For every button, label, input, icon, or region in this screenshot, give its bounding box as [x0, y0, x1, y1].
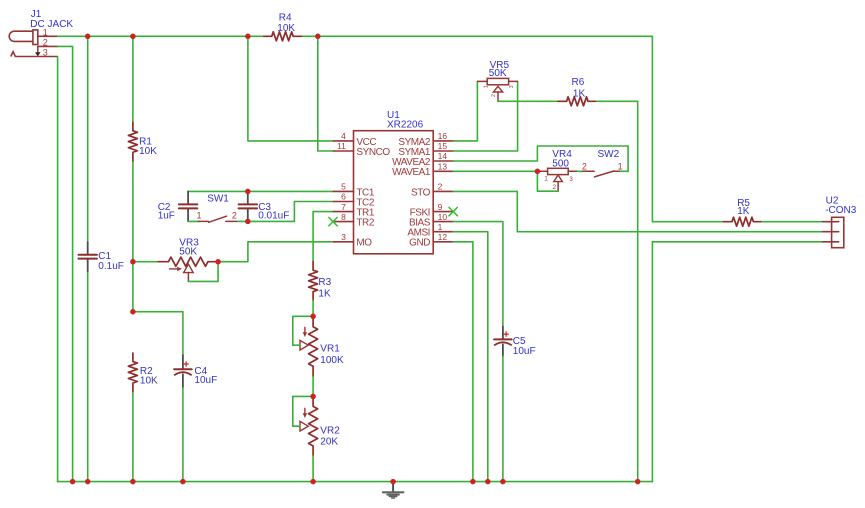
J1 switch arrow head [35, 52, 41, 56]
svg-text:10K: 10K [277, 23, 295, 34]
U1 pin 4 VCC [333, 140, 353, 142]
wire C2 bottom to SW1 [188, 220, 198, 222]
svg-text:2: 2 [43, 38, 48, 48]
svg-text:11: 11 [337, 141, 346, 151]
svg-text:XR2206: XR2206 [387, 120, 424, 131]
svg-text:10K: 10K [140, 375, 158, 386]
resistor R1 [128, 122, 137, 161]
svg-text:50K: 50K [489, 68, 507, 79]
svg-text:10uF: 10uF [513, 346, 536, 357]
wire C2 top lead corner [187, 190, 189, 192]
resistor R5 [723, 217, 762, 226]
svg-text:7: 7 [341, 202, 346, 212]
wire C5 to rail [502, 356, 504, 482]
svg-text:14: 14 [438, 151, 448, 161]
wire VR4 to SW2 [578, 170, 584, 172]
wire R5 to U2 pin1 [762, 221, 823, 223]
U1 pin 10 BIAS [433, 221, 453, 223]
wire R3 to VR1 [312, 300, 314, 316]
svg-text:R4: R4 [279, 12, 292, 23]
wire GND rail rise to U2 pin3 [651, 242, 653, 482]
svg-text:3: 3 [341, 232, 346, 242]
svg-text:TR2: TR2 [356, 218, 374, 229]
svg-text:1K: 1K [573, 89, 586, 100]
wire C4 to rail [182, 387, 184, 482]
svg-text:10: 10 [438, 212, 448, 222]
wire AMSI pin1 down [453, 232, 488, 482]
switch SW1 left contact [198, 220, 208, 222]
U1 pin 11 SYNCO [333, 150, 353, 152]
svg-text:16: 16 [438, 131, 448, 141]
resistor R4 [264, 32, 302, 41]
svg-text:1uF: 1uF [158, 210, 175, 221]
connector J1 DC JACK barrel [9, 31, 32, 41]
resistor R6 [558, 97, 597, 106]
connector U2 -CON3 body [832, 217, 844, 247]
wire J1 pin2 jog [58, 46, 73, 481]
svg-text:100K: 100K [320, 355, 344, 366]
capacitor C3 [247, 191, 249, 203]
junction dots [85, 34, 91, 40]
capacitor C2 [187, 191, 189, 203]
capacitor C5 polarized [502, 327, 504, 339]
U2 pin 3 stub [823, 241, 839, 243]
VR3 adjust arrow [170, 268, 179, 270]
wire SYNCO drop to pin11 [318, 36, 334, 151]
no-connect X on FSKI pin9 [449, 207, 457, 215]
svg-text:4: 4 [341, 131, 346, 141]
wire VR3 wiper loop [188, 262, 218, 282]
switch SW2 left contact [583, 170, 594, 172]
VR3 wiper stem [187, 273, 189, 282]
U2 pin 1 stub [823, 221, 839, 223]
VR4 pin3 lead [568, 170, 577, 172]
svg-text:R3: R3 [318, 277, 331, 288]
svg-text:MO: MO [356, 238, 372, 249]
wire U2 pin3 feed [652, 241, 822, 243]
wire node to C4 branch [133, 312, 183, 356]
svg-text:SW2: SW2 [598, 149, 620, 160]
svg-text:15: 15 [438, 141, 448, 151]
U1 pin 12 GND [433, 241, 453, 243]
ground symbol [392, 482, 394, 492]
resistor R3 [309, 262, 318, 301]
svg-text:1: 1 [618, 162, 623, 172]
switch SW1 right contact [226, 220, 238, 222]
connector J1 sleeve rectangle [33, 30, 38, 45]
wire R6 down to rail [597, 101, 638, 481]
svg-text:WAVEA1: WAVEA1 [392, 167, 431, 178]
svg-text:2: 2 [232, 211, 237, 221]
svg-text:3: 3 [43, 48, 48, 58]
svg-text:13: 13 [438, 162, 448, 172]
wire GND bottom rail [58, 481, 653, 483]
VR1 wiper triangle [300, 340, 308, 350]
svg-text:R6: R6 [572, 77, 585, 88]
svg-text:VR1: VR1 [320, 344, 340, 355]
svg-text:6: 6 [341, 192, 346, 202]
J1 switch arrow shaft [37, 46, 39, 52]
op-amp U1 XR2206 body [354, 131, 434, 254]
switch SW2 blade [594, 171, 613, 177]
U1 pin 16 SYMA2 [433, 140, 453, 142]
U1 pin 9 FSKI [433, 211, 453, 213]
U1 pin 6 TC2 [333, 201, 353, 203]
svg-text:1: 1 [544, 176, 548, 183]
wire SW1 to TC2 [238, 202, 334, 222]
svg-text:2: 2 [438, 182, 443, 192]
wire VCC drop to pin4 [248, 36, 334, 141]
wire BIAS down to C5 [453, 222, 503, 327]
U1 pin 2 STO [433, 190, 453, 192]
svg-text:500: 500 [552, 159, 569, 170]
wire VR1 wiper loop [293, 316, 313, 345]
no-connect X on TR2 pin8 [329, 217, 337, 225]
wire pin15 up to VR5 pin3 [453, 81, 517, 151]
svg-text:0.1uF: 0.1uF [98, 261, 124, 272]
svg-text:VR2: VR2 [320, 425, 340, 436]
VR2 wiper triangle [300, 421, 308, 431]
wire VR2 wiper loop [293, 396, 313, 426]
capacitor C4 polarized [182, 355, 184, 368]
svg-text:2: 2 [582, 162, 587, 172]
potentiometer VR2 track [309, 396, 318, 456]
svg-text:2: 2 [553, 184, 557, 191]
U1 pin 8 TR2 [333, 221, 353, 223]
svg-text:10K: 10K [139, 146, 157, 157]
wire C2-C3 top to TC1 [188, 190, 333, 192]
svg-text:1K: 1K [737, 206, 750, 217]
U1 pin 7 TR1 [333, 211, 353, 213]
wire J1 pin3 column [57, 57, 59, 482]
U1 pin 15 SYMA1 [433, 150, 453, 152]
VR5 pin1 lead [477, 80, 487, 82]
potentiometer VR5 body [487, 78, 508, 84]
potentiometer VR4 body [548, 168, 569, 174]
svg-text:1: 1 [438, 222, 443, 232]
capacitor C1 [87, 242, 89, 254]
svg-text:SW1: SW1 [207, 193, 229, 204]
U2 pin 2 stub [823, 231, 839, 233]
wire R2 column bottom [132, 392, 134, 482]
VR2 adjust arrow [304, 408, 306, 414]
svg-text:-CON3: -CON3 [825, 205, 857, 216]
VR5 wiper arrow [493, 86, 502, 92]
wire VCC top rail left of R4 [58, 35, 264, 37]
wire TR1 down to R3 [313, 212, 333, 262]
wire VCC top rail right of R4 [301, 35, 652, 37]
VR4 pin1 lead [537, 170, 547, 172]
svg-text:GND: GND [409, 238, 430, 249]
svg-text:1: 1 [196, 211, 201, 221]
svg-text:8: 8 [341, 212, 346, 222]
J1 pin 1 stub [38, 35, 58, 37]
VR1 adjust arrow [304, 327, 306, 333]
wire R1 node to VR3 [133, 261, 158, 263]
wire GND pin12 down [453, 242, 473, 482]
wire STO pin2 run [453, 191, 822, 231]
wire SW2 to pin14 loop [620, 170, 628, 172]
wire VR2 to rail [312, 456, 314, 482]
switch SW2 right contact [614, 170, 621, 172]
svg-text:1: 1 [43, 28, 48, 38]
resistor R2 [128, 353, 137, 392]
wire rail to R5 [652, 221, 723, 223]
svg-text:5: 5 [341, 182, 346, 192]
potentiometer VR3 track [158, 257, 218, 266]
wire VCC rail drop to R5 [651, 36, 653, 221]
svg-text:2: 2 [491, 94, 497, 97]
svg-text:50K: 50K [179, 247, 197, 258]
svg-text:1: 1 [483, 85, 489, 88]
wire pin16 up to VR5 pin1 [453, 81, 477, 140]
svg-text:SYNCO: SYNCO [356, 147, 390, 158]
wire R1 to VR3 node [132, 161, 134, 312]
potentiometer VR1 track [309, 316, 318, 376]
wire VR5 wiper to R6 [498, 100, 558, 102]
svg-text:20K: 20K [320, 437, 338, 448]
svg-text:DC JACK: DC JACK [30, 19, 73, 30]
U1 pin 3 MO [333, 241, 353, 243]
wire C1 column bottom [87, 271, 89, 481]
svg-text:1K: 1K [318, 289, 331, 300]
VR3 wiper triangle [184, 264, 194, 272]
svg-text:3: 3 [509, 85, 515, 88]
wire VR1 to VR2 [312, 377, 314, 397]
svg-text:STO: STO [411, 187, 431, 198]
svg-text:12: 12 [438, 232, 448, 242]
svg-text:9: 9 [438, 202, 443, 212]
wire VR3 to MO [218, 242, 333, 262]
wire C1 column top [87, 36, 89, 242]
U1 pin 13 WAVEA1 [433, 170, 453, 172]
wire pin13 to VR4 [453, 170, 537, 172]
wire VR4 wiper loop [537, 171, 558, 191]
svg-text:0.01uF: 0.01uF [258, 210, 289, 221]
VR5 pin3 lead [509, 80, 518, 82]
U1 pin 1 AMSI [433, 231, 453, 233]
J1 pin 2 stub [38, 45, 58, 47]
wire R1 column top [132, 36, 134, 122]
VR4 wiper arrow [554, 175, 563, 182]
wire pin14 over to SW2 [453, 146, 628, 171]
J1 pin 3 contact with spring [11, 52, 58, 57]
U1 pin 5 TC1 [333, 190, 353, 192]
svg-text:10uF: 10uF [194, 375, 217, 386]
switch SW1 blade [209, 216, 227, 222]
U1 pin 14 WAVEA2 [433, 160, 453, 162]
svg-text:3: 3 [569, 176, 573, 183]
